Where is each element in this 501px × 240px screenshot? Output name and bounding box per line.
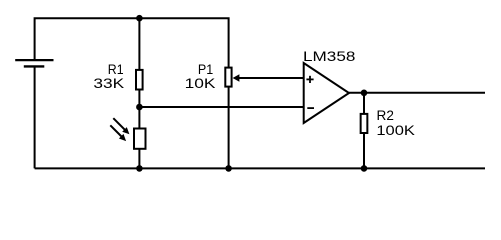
svg-text:33K: 33K: [93, 75, 125, 91]
pin - inverting: [307, 107, 314, 109]
resistor R1: [136, 70, 143, 90]
wire top rail: [35, 18, 229, 68]
pin + non-inverting: [306, 76, 313, 83]
svg-text:100K: 100K: [376, 122, 415, 138]
op-amp U1 LM358: [304, 63, 349, 123]
svg-text:10K: 10K: [185, 75, 217, 91]
junction output / R2: [361, 90, 368, 97]
photoresistor LDR: [110, 118, 145, 149]
wire P1 lower leg: [228, 86, 230, 168]
wire op-amp output: [349, 92, 485, 94]
junction R2 / bottom rail: [361, 165, 368, 172]
potentiometer P1: [225, 68, 239, 87]
svg-text:R2: R2: [377, 107, 395, 123]
wire R1 to node A: [138, 90, 140, 130]
wire R1 branch top: [138, 18, 140, 70]
wire bottom rail: [35, 167, 485, 169]
resistor R2: [361, 114, 368, 133]
junction LDR / bottom rail: [136, 165, 143, 172]
junction top rail / R1: [136, 15, 143, 22]
wire battery negative to bottom rail: [34, 66, 36, 168]
junction P1 / bottom rail: [225, 165, 232, 172]
svg-text:LM358: LM358: [303, 48, 356, 64]
junction node A (R1/LDR divider): [136, 104, 143, 111]
wire LDR to bottom rail: [138, 149, 140, 169]
wire R2 top leg: [363, 93, 365, 115]
battery B1: [15, 60, 53, 66]
wire R2 bottom leg: [363, 133, 365, 169]
wire wiper to non-inverting input: [236, 77, 304, 79]
wire node A to inverting input: [139, 106, 303, 108]
